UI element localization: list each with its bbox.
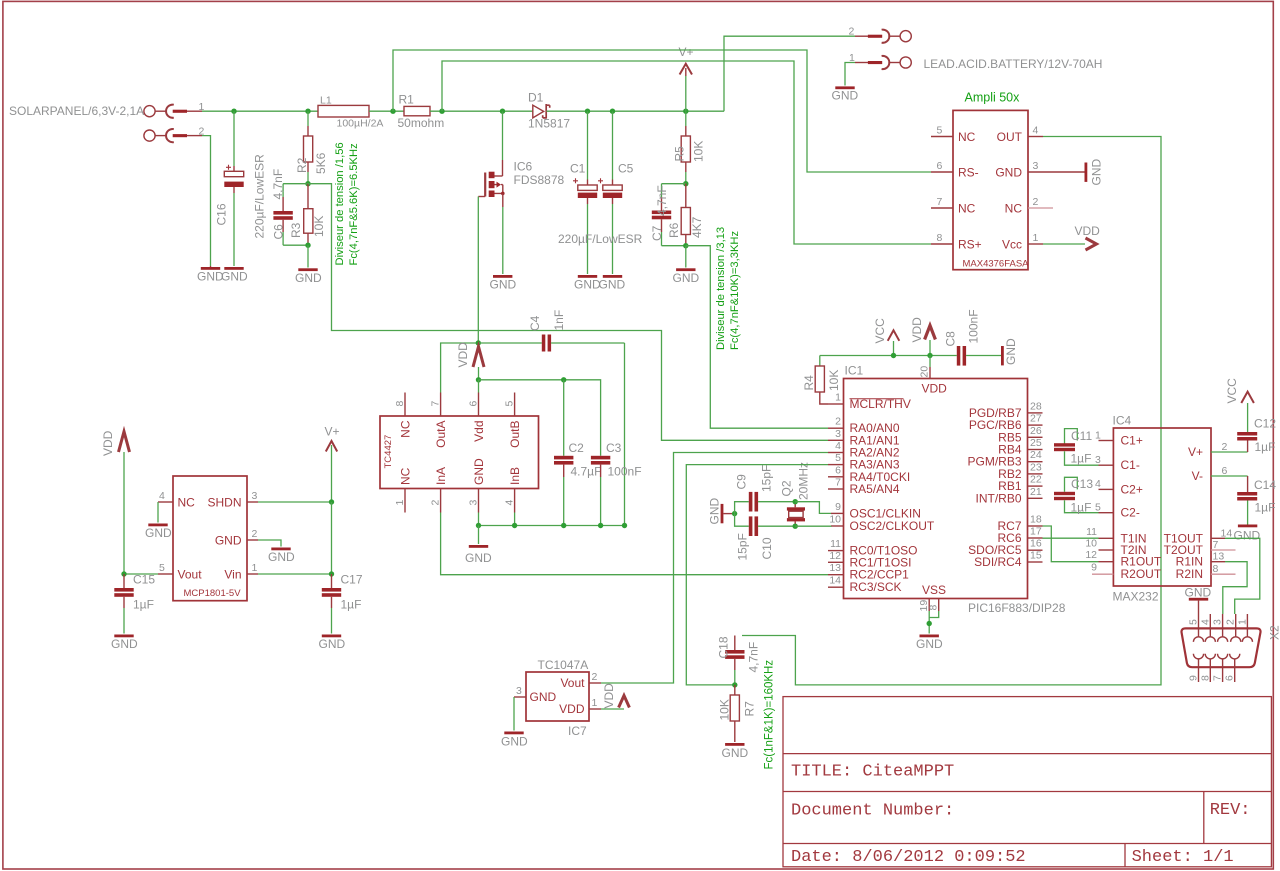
svg-text:1µF: 1µF (1071, 452, 1092, 466)
pin 2 GND (247, 539, 258, 541)
svg-text:GND: GND (995, 166, 1022, 180)
pin 5 Vout (158, 573, 173, 575)
svg-text:R2: R2 (295, 157, 309, 173)
svg-text:R7: R7 (743, 701, 757, 717)
pin 2 Vout (589, 682, 601, 684)
pin 24 PGM/RB3 stub (1028, 461, 1043, 463)
svg-text:MAX4376FASA: MAX4376FASA (963, 259, 1030, 270)
svg-text:Diviseur de tension /3,13: Diviseur de tension /3,13 (715, 227, 727, 350)
pin 27 PGC/RB6 stub (1028, 424, 1043, 426)
pin 4 RA2/AN2 (828, 452, 844, 454)
svg-text:C16: C16 (215, 203, 229, 225)
pin 3 C1- (1099, 464, 1114, 466)
capacitor C7 (652, 184, 686, 246)
svg-text:Sheet: 1/1: Sheet: 1/1 (1132, 848, 1234, 867)
svg-text:GND: GND (501, 735, 528, 749)
svg-text:24: 24 (1030, 449, 1042, 461)
svg-text:InB: InB (508, 467, 522, 485)
node R1 left sense (390, 109, 395, 114)
wire divider tap to PIC RA1 (308, 184, 828, 441)
wire V+ down to Vin (331, 502, 333, 574)
svg-text:GND: GND (1004, 338, 1018, 365)
svg-text:20MHz: 20MHz (797, 462, 811, 500)
svg-text:4.7µF: 4.7µF (571, 465, 602, 479)
ground (amp, rotated) (1085, 163, 1088, 182)
svg-text:4,7nF: 4,7nF (655, 185, 669, 216)
ground (C8, rotated) (1001, 346, 1004, 365)
wire amp OUT to C18 (current ripple) (742, 137, 1161, 685)
svg-text:R4: R4 (802, 375, 816, 391)
svg-text:NC: NC (399, 467, 413, 485)
pin 1 NC (bottom) (404, 489, 406, 513)
connector X3 pin 1 (battery -) (855, 56, 911, 69)
capacitor C16 (224, 111, 243, 266)
pin 4 C2+ (1099, 488, 1114, 490)
DB9 pin 9 stub (1198, 659, 1200, 682)
svg-text:Q2: Q2 (780, 480, 794, 496)
node divider bottom solar (305, 243, 310, 248)
svg-text:1: 1 (1095, 430, 1101, 442)
svg-text:1µF: 1µF (133, 598, 154, 612)
ground (C16) (224, 267, 243, 270)
svg-text:100µH/2A: 100µH/2A (337, 118, 384, 130)
svg-text:GND: GND (530, 690, 557, 704)
svg-text:C15: C15 (133, 573, 155, 587)
svg-text:C12: C12 (1254, 417, 1276, 431)
svg-text:5: 5 (159, 562, 165, 574)
svg-text:InA: InA (434, 467, 448, 485)
wire R3 to gnd (307, 245, 309, 267)
pin 2 NC stub (1028, 207, 1053, 209)
svg-text:5: 5 (835, 452, 841, 464)
pin 5 C2- (1099, 512, 1114, 514)
svg-text:C4: C4 (528, 315, 542, 331)
svg-text:2: 2 (252, 528, 258, 540)
svg-text:D1: D1 (528, 91, 544, 105)
pin 4 OUT (1028, 136, 1043, 138)
svg-text:C2: C2 (569, 441, 585, 455)
ground (R7) (725, 743, 744, 746)
svg-text:10K: 10K (718, 699, 732, 720)
svg-text:OSC2/CLKOUT: OSC2/CLKOUT (850, 519, 935, 533)
svg-text:11: 11 (830, 538, 841, 550)
pin 7 T2OUT stub (1211, 549, 1236, 551)
node crystal gnd (732, 511, 737, 516)
ground (TC4427) (469, 545, 488, 548)
svg-text:GND: GND (722, 746, 749, 760)
svg-text:GND: GND (1090, 159, 1104, 186)
svg-text:1: 1 (1033, 232, 1039, 244)
wire gnd row drop (478, 526, 480, 545)
node SHDN V+ (329, 499, 334, 504)
svg-text:6: 6 (937, 160, 943, 172)
node crystal top (793, 499, 798, 504)
supply V+ (MCP input) (326, 441, 337, 502)
pin 1 VDD (589, 708, 601, 710)
svg-text:3: 3 (468, 500, 480, 506)
svg-text:C1+: C1+ (1121, 434, 1143, 448)
svg-text:7: 7 (1213, 539, 1219, 551)
svg-text:26: 26 (1030, 425, 1042, 437)
capacitor C14 (1237, 476, 1257, 525)
svg-text:1: 1 (592, 697, 598, 709)
node VDD pin20 (927, 353, 932, 358)
wire L1 to R1 (369, 110, 404, 112)
pin 8 VSS (bottom) (938, 599, 940, 612)
svg-text:VDD: VDD (602, 683, 616, 709)
svg-text:100nF: 100nF (967, 309, 981, 343)
svg-text:16: 16 (1030, 538, 1042, 550)
svg-text:1µF: 1µF (1071, 501, 1092, 515)
svg-text:1: 1 (252, 562, 258, 574)
pin 26 RB5 stub (1028, 436, 1043, 438)
svg-text:8: 8 (394, 401, 406, 407)
pin 12 R1OUT (1099, 561, 1114, 563)
svg-text:1: 1 (394, 500, 406, 506)
pin 6 V- (1211, 475, 1248, 477)
pin 19 VSS (bottom) (928, 599, 930, 612)
connector X1 pin 1 (144, 105, 202, 118)
ground (IC6 source) (493, 275, 512, 278)
svg-text:C11: C11 (1071, 429, 1092, 443)
node gnd row C4 (622, 523, 627, 528)
pin 2 InA (bottom) (440, 489, 442, 513)
svg-text:NC: NC (399, 420, 413, 438)
svg-text:15pF: 15pF (760, 465, 774, 492)
pin 3 RA1/AN1 (828, 439, 844, 441)
svg-text:C2+: C2+ (1121, 482, 1143, 496)
node solar bus C16 (231, 109, 236, 114)
svg-text:RS-: RS- (958, 166, 979, 180)
svg-text:C18: C18 (717, 636, 731, 658)
svg-text:7: 7 (1212, 675, 1224, 681)
svg-text:MCP1801-5V: MCP1801-5V (184, 588, 242, 599)
svg-text:15pF: 15pF (736, 533, 750, 560)
node battery divider mid (683, 181, 688, 186)
pin 17 RC6 (1028, 537, 1043, 539)
svg-text:GND: GND (221, 270, 248, 284)
capacitor C3 (591, 456, 610, 526)
svg-text:C8: C8 (944, 331, 958, 347)
svg-text:NC: NC (958, 130, 976, 144)
driver U2 TC4427 box (380, 416, 539, 489)
svg-text:12: 12 (1085, 549, 1097, 561)
capacitor C5 (polarized) (598, 111, 622, 274)
svg-text:9: 9 (835, 501, 841, 513)
ground (C1) (578, 275, 597, 278)
svg-text:6: 6 (1222, 465, 1228, 477)
svg-text:V+: V+ (679, 45, 694, 59)
svg-text:6: 6 (835, 464, 841, 476)
svg-text:TC4427: TC4427 (383, 435, 394, 469)
pin 22 RB1 stub (1028, 485, 1043, 487)
svg-text:INT/RB0: INT/RB0 (975, 491, 1021, 505)
capacitor C15 (114, 574, 133, 634)
svg-text:10K: 10K (312, 216, 326, 237)
ground (C17) (322, 635, 341, 638)
node gnd row InB (512, 523, 517, 528)
DB9 pin 6 stub (1234, 659, 1236, 682)
ground (battery) (835, 86, 854, 89)
svg-text:18: 18 (1030, 514, 1042, 526)
svg-text:OUT: OUT (997, 130, 1023, 144)
svg-text:REV:: REV: (1210, 801, 1251, 820)
capacitor C4 (542, 335, 625, 352)
wire VDD row to C2 C3 (479, 380, 601, 456)
svg-text:C1-: C1- (1121, 458, 1140, 472)
pin 3 SHDN (247, 501, 258, 503)
node Vin C17 (329, 571, 334, 576)
svg-text:2: 2 (1225, 619, 1237, 625)
wire pin2 to gnd (202, 136, 211, 266)
pin 8 R2IN stub (1211, 573, 1236, 575)
wire VDD rail (820, 355, 957, 357)
pin 1 Vcc (1028, 243, 1043, 245)
svg-text:7: 7 (937, 196, 943, 208)
node gnd row C3 (598, 523, 603, 528)
ground (C5) (603, 275, 622, 278)
connector X1 pin 2 (144, 129, 202, 142)
ground (solar pin2) (201, 266, 220, 270)
ground (R3) (298, 268, 317, 271)
node Vout C15 (121, 571, 126, 576)
capacitor C2 (554, 380, 573, 526)
svg-text:IC7: IC7 (568, 724, 587, 738)
ground (PIC VSS) (920, 635, 939, 638)
pin 15 SDI/RC4 stub (1028, 561, 1043, 563)
svg-text:R5: R5 (673, 146, 687, 162)
node battery divider bottom (683, 243, 688, 248)
svg-text:GND: GND (673, 271, 700, 285)
svg-text:C17: C17 (341, 573, 363, 587)
mosfet IC6 FDS8878 (478, 111, 504, 274)
svg-text:RC3/SCK: RC3/SCK (850, 580, 902, 594)
node C2 top (561, 377, 566, 382)
wire gnd row TC4427 (479, 525, 625, 527)
svg-text:C14: C14 (1254, 478, 1276, 492)
svg-text:GND: GND (490, 278, 517, 292)
pin 2 V+ (1211, 451, 1248, 453)
svg-text:23: 23 (1030, 461, 1042, 473)
svg-text:GND: GND (197, 270, 224, 284)
svg-text:VDD: VDD (1075, 224, 1101, 238)
DB9 pin 1 stub (1246, 614, 1248, 637)
pin 8 NC (top) (404, 393, 406, 417)
pin 10 T2IN stub (1099, 549, 1114, 551)
supply V+ (battery bus) (680, 64, 692, 111)
pin 5 OutB (top) (514, 393, 516, 417)
node solar bus R2 (305, 109, 310, 114)
svg-text:GND: GND (574, 278, 601, 292)
wire main solar net (202, 110, 318, 112)
wire battery pin2 to V+ bus (724, 36, 855, 111)
svg-text:1N5817: 1N5817 (528, 117, 570, 131)
svg-text:C10: C10 (760, 537, 774, 559)
svg-text:13: 13 (829, 562, 841, 574)
supply VDD (rail) (925, 326, 936, 356)
svg-text:FDS8878: FDS8878 (514, 173, 565, 187)
svg-text:2: 2 (1222, 441, 1228, 453)
resistor R4 (815, 356, 828, 405)
svg-text:1µF: 1µF (341, 598, 362, 612)
svg-text:GND: GND (1234, 529, 1261, 543)
svg-text:4: 4 (159, 490, 165, 502)
svg-text:Fc(4,7nF&10K)=3,3KHz: Fc(4,7nF&10K)=3,3KHz (729, 231, 741, 350)
svg-text:2: 2 (835, 416, 841, 428)
ground (C14) (1238, 525, 1257, 528)
pin 14 T1OUT (1211, 537, 1225, 539)
svg-text:GND: GND (268, 550, 295, 564)
svg-text:R3: R3 (289, 222, 303, 238)
svg-text:20: 20 (919, 366, 931, 378)
pin 16 SDO/RC5 stub (1028, 549, 1043, 551)
svg-text:C1: C1 (570, 162, 586, 176)
svg-text:SDI/RC4: SDI/RC4 (974, 555, 1022, 569)
supply VCC (rail) (888, 330, 900, 355)
svg-text:GND: GND (215, 534, 242, 548)
svg-text:25: 25 (1030, 437, 1042, 449)
svg-text:3: 3 (1212, 619, 1224, 625)
regulator U3 MCP1801 box (173, 476, 247, 601)
pin 13 RC2/CCP1 (828, 574, 844, 576)
pin 4 InB (bottom) (514, 489, 516, 513)
svg-text:NC: NC (958, 202, 976, 216)
svg-text:21: 21 (1030, 486, 1042, 498)
capacitor C11 (1054, 429, 1099, 466)
svg-text:220µF/LowESR: 220µF/LowESR (253, 154, 267, 239)
capacitor C6 (273, 184, 308, 246)
svg-text:10K: 10K (827, 370, 841, 391)
svg-text:C2-: C2- (1121, 506, 1140, 520)
wire RC6 to T1IN (1043, 537, 1099, 539)
svg-text:VDD: VDD (456, 342, 470, 368)
pin 3 GND (to gnd symbol) (1028, 171, 1085, 173)
svg-text:R2OUT: R2OUT (1121, 567, 1162, 581)
svg-text:RS+: RS+ (958, 238, 982, 252)
wire gate node to C4 (478, 342, 542, 344)
svg-text:C7: C7 (650, 225, 664, 241)
pin 7 RA5/AN4 stub (828, 488, 844, 490)
wire VSS pins join (929, 611, 939, 618)
pin 1 MCLR/THV (828, 403, 844, 405)
pin 9 OSC1/CLKIN (831, 512, 844, 514)
svg-text:4: 4 (504, 500, 516, 506)
capacitor C17 (322, 574, 341, 634)
node R7 C18 (732, 682, 737, 687)
node R1 right sense (439, 109, 444, 114)
svg-text:14: 14 (1221, 527, 1233, 539)
svg-text:4: 4 (1033, 125, 1039, 137)
node VCC rail (891, 353, 896, 358)
svg-text:Vout: Vout (560, 676, 585, 690)
svg-text:IC1: IC1 (845, 364, 864, 378)
ground (MCP pin4) (148, 524, 167, 527)
wire R6 to gnd (685, 246, 687, 268)
svg-text:C13: C13 (1071, 477, 1093, 491)
svg-text:V+: V+ (325, 425, 340, 439)
svg-text:GND: GND (295, 271, 322, 285)
svg-text:2: 2 (1033, 196, 1039, 208)
resistor R2 (304, 111, 313, 184)
pin 11 T1IN (1099, 537, 1114, 539)
pin 8 RS+ stub (931, 243, 953, 245)
svg-text:C9: C9 (735, 474, 749, 490)
pin 3 GND (bottom) (478, 489, 480, 513)
wire RC7 to R1OUT (1043, 526, 1099, 562)
pin 23 RB2 stub (1028, 473, 1043, 475)
svg-text:VSS: VSS (922, 583, 946, 597)
resistor R5 (681, 111, 690, 184)
svg-text:13: 13 (1213, 551, 1225, 563)
svg-text:VDD: VDD (559, 702, 585, 716)
pin 20 VDD (top) (929, 356, 931, 368)
DB9 pin 7 stub (1222, 659, 1224, 682)
DB9 pin 8 stub (1209, 659, 1211, 682)
wire battery divider tap to PIC RA0 (686, 246, 828, 429)
svg-text:220µF/LowESR: 220µF/LowESR (558, 232, 643, 246)
wire battery pin1 to gnd (845, 63, 855, 86)
pin 11 RC0/T1OSO stub (828, 550, 844, 552)
svg-text:Vin: Vin (224, 568, 241, 582)
pin 1 Vin (247, 573, 258, 575)
transceiver IC4 MAX232 box (1113, 428, 1211, 586)
svg-text:6: 6 (468, 401, 480, 407)
pin 3 GND (TC1047A) (514, 696, 526, 698)
svg-text:TC1047A: TC1047A (538, 658, 589, 672)
supply VDD (amp, right arrow) (1086, 238, 1097, 250)
svg-text:GND: GND (465, 551, 492, 565)
svg-text:5K6: 5K6 (314, 152, 328, 174)
pin 4 NC (to gnd) (158, 501, 173, 503)
capacitor C12 (1237, 432, 1257, 452)
ground (MCP pin2) (271, 548, 290, 551)
svg-text:TITLE: CiteaMPPT: TITLE: CiteaMPPT (791, 763, 954, 782)
svg-text:8: 8 (928, 605, 940, 611)
node gate drive (476, 340, 481, 345)
node divider solar (305, 181, 310, 186)
svg-text:1: 1 (835, 392, 841, 404)
svg-text:6: 6 (1224, 675, 1236, 681)
title block frame (783, 697, 1271, 867)
svg-text:RA5/AN4: RA5/AN4 (850, 482, 900, 496)
wire T1OUT to DB9 pin2 (1225, 538, 1260, 614)
svg-text:11: 11 (1086, 526, 1097, 538)
DB9 pin 4 (1209, 614, 1211, 637)
wire R1 to D1 (430, 110, 533, 112)
svg-text:5: 5 (504, 401, 516, 407)
svg-text:NC: NC (1005, 202, 1023, 216)
svg-text:GND: GND (599, 278, 626, 292)
svg-text:Vdd: Vdd (472, 421, 486, 442)
svg-text:Fc(1nF&1K)=160KHz: Fc(1nF&1K)=160KHz (764, 660, 776, 770)
pin 6 RS- stub (931, 171, 953, 173)
pin 7 OutA (top) (440, 393, 442, 417)
op-amp U1 MAX4376 box (953, 110, 1028, 269)
capacitor C18 (725, 636, 744, 685)
resistor R7 (730, 685, 739, 742)
svg-text:8: 8 (937, 232, 943, 244)
connector X2 DB9 shell (1181, 628, 1260, 667)
wire OutA to gate node (441, 343, 479, 393)
pin 10 OSC2/CLKOUT (831, 525, 844, 527)
crystal Q2 (787, 502, 805, 527)
svg-text:3: 3 (252, 490, 258, 502)
svg-text:3: 3 (516, 685, 522, 697)
svg-text:10K: 10K (692, 141, 706, 162)
svg-text:VDD: VDD (910, 317, 924, 343)
svg-text:1µF: 1µF (1255, 440, 1276, 454)
svg-text:GND: GND (472, 458, 486, 485)
